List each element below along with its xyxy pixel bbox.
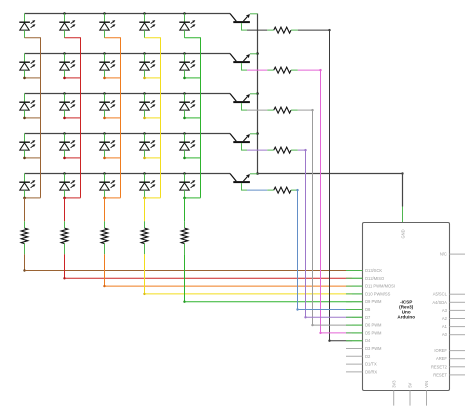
svg-text:A5/SCL: A5/SCL: [433, 292, 448, 297]
wire row 4 net: [25, 133, 231, 135]
svg-text:3V3: 3V3: [391, 380, 396, 388]
resistor R3 column 3 220: [101, 228, 108, 244]
pin IOREF: [434, 348, 465, 353]
resistor R10 Q5 base: [274, 187, 291, 193]
pin 5V: [408, 383, 413, 406]
svg-text:Arduino: Arduino: [397, 315, 415, 320]
svg-text:D12/MISO: D12/MISO: [365, 276, 384, 281]
LED18 row 4 col 3: [99, 134, 115, 158]
IC U1 Arduino Uno (Rev3) ICSP body: [363, 223, 450, 391]
svg-text:D4: D4: [365, 338, 371, 343]
wire Q3 base: [241, 109, 274, 111]
LED10 row 2 col 5: [179, 54, 195, 78]
wire column 4 to Arduino pin D10: [143, 244, 362, 295]
resistor R8 Q3 base: [274, 107, 291, 113]
svg-text:D5 PWM: D5 PWM: [365, 330, 382, 335]
pin VIN: [424, 381, 429, 406]
LED21 row 5 col 1: [19, 174, 35, 198]
LED20 row 4 col 5: [179, 134, 195, 158]
wire emitter bus: [257, 14, 259, 174]
LED19 row 4 col 4: [139, 134, 155, 158]
pin D8: [346, 307, 371, 312]
wire row 5 to Arduino pin: [291, 189, 363, 311]
node row 2 taps: [63, 52, 186, 55]
node row 5 taps: [63, 172, 186, 175]
svg-text:VIN: VIN: [424, 381, 429, 388]
node column 5 junctions: [183, 77, 186, 200]
resistor R6 Q1 base: [274, 27, 291, 33]
pin 3V3: [391, 380, 396, 406]
svg-text:AREF: AREF: [436, 356, 447, 361]
node column 4 junctions: [143, 77, 146, 200]
wire Q5 base: [241, 189, 274, 191]
LED9 row 2 col 4: [139, 54, 155, 78]
wire column 1 to resistor: [24, 198, 26, 228]
wire row 1 to Arduino pin: [291, 29, 363, 342]
pin D2: [346, 354, 371, 359]
LED1 row 1 col 1: [19, 14, 35, 38]
svg-text:A0: A0: [442, 332, 448, 337]
wire row 4 to Arduino pin: [291, 149, 363, 319]
pin D12/MISO: [346, 276, 384, 281]
LED24 row 5 col 4: [139, 174, 155, 198]
resistor R1 column 1 220: [21, 228, 28, 244]
pin D7: [346, 315, 371, 320]
svg-text:5V: 5V: [408, 383, 413, 388]
wire column 5 to resistor: [184, 198, 186, 228]
LED17 row 4 col 2: [59, 134, 75, 158]
resistor R4 column 4 220: [141, 228, 148, 244]
wire column 3 to resistor: [104, 198, 106, 228]
wire column 2 to Arduino pin D12: [63, 244, 362, 280]
resistor R7 Q2 base: [274, 67, 291, 73]
pin D10 PWM/SS: [346, 291, 391, 296]
LED11 row 3 col 1: [19, 94, 35, 118]
wire row 1 net: [25, 13, 231, 15]
LED6 row 2 col 1: [19, 54, 35, 78]
svg-text:D1/TX: D1/TX: [365, 362, 377, 367]
wire column 4 cathode bus: [145, 38, 161, 198]
resistor R9 Q4 base: [274, 147, 291, 153]
wire column 4 to resistor: [144, 198, 146, 228]
pin D11 PWM/MOSI: [346, 284, 395, 289]
svg-text:D10 PWM/SS: D10 PWM/SS: [365, 291, 391, 296]
pin D13/SCK: [346, 268, 382, 273]
pin AREF: [436, 356, 465, 361]
svg-text:A2: A2: [442, 316, 448, 321]
svg-text:D7: D7: [365, 315, 371, 320]
resistor R5 column 5 220: [181, 228, 188, 244]
LED22 row 5 col 2: [59, 174, 75, 198]
svg-text:A1: A1: [442, 324, 448, 329]
label U1 title: [397, 299, 415, 319]
pin D5 PWM: [346, 330, 382, 335]
transistor Q4: [230, 134, 258, 151]
wire Q4 base: [241, 149, 274, 151]
node row 4 taps: [63, 132, 186, 135]
LED16 row 4 col 1: [19, 134, 35, 158]
node column 3 junctions: [103, 77, 106, 200]
pin D3 PWM: [346, 346, 382, 351]
node column 1 junctions: [23, 77, 26, 200]
LED8 row 2 col 3: [99, 54, 115, 78]
pin A2: [442, 316, 465, 321]
wire column 2 cathode bus: [65, 38, 81, 198]
svg-text:D9 PWM: D9 PWM: [365, 299, 382, 304]
LED15 row 3 col 5: [179, 94, 195, 118]
wire row 3 to Arduino pin: [291, 109, 363, 326]
LED2 row 1 col 2: [59, 14, 75, 38]
resistor R2 column 2 220: [61, 228, 68, 244]
svg-text:N/C: N/C: [440, 252, 447, 257]
wire column 3 to Arduino pin D11: [103, 244, 362, 288]
LED4 row 1 col 4: [139, 14, 155, 38]
wire column 2 to resistor: [64, 198, 66, 228]
wire row 3 net: [25, 93, 231, 95]
wire column 1 to Arduino pin D13: [23, 244, 362, 272]
transistor Q1: [230, 14, 258, 31]
node column 2 junctions: [63, 77, 66, 200]
pin D1/TX: [346, 362, 377, 367]
pin RESET: [433, 372, 465, 377]
pin N/C: [440, 252, 465, 257]
pin D0/RX: [346, 369, 377, 374]
pin D4: [346, 338, 371, 343]
transistor Q3: [230, 94, 258, 111]
LED23 row 5 col 3: [99, 174, 115, 198]
LED14 row 3 col 4: [139, 94, 155, 118]
LED3 row 1 col 3: [99, 14, 115, 38]
svg-text:D2: D2: [365, 354, 371, 359]
svg-text:D11 PWM/MOSI: D11 PWM/MOSI: [365, 284, 395, 289]
svg-text:D0/RX: D0/RX: [365, 369, 377, 374]
pin D9 PWM: [346, 299, 382, 304]
svg-text:D8: D8: [365, 307, 371, 312]
svg-text:IOREF: IOREF: [434, 348, 447, 353]
pin RESET2: [431, 364, 465, 369]
svg-text:RESET: RESET: [433, 372, 447, 377]
LED13 row 3 col 3: [99, 94, 115, 118]
node emitter bus junctions: [256, 52, 259, 175]
pin A5/SCL: [433, 292, 465, 297]
LED5 row 1 col 5: [179, 14, 195, 38]
svg-text:A3: A3: [442, 308, 448, 313]
svg-text:RESET2: RESET2: [431, 364, 448, 369]
wire row 2 net: [25, 53, 231, 55]
wire Q2 base: [241, 69, 274, 71]
wire column 3 cathode bus: [105, 38, 121, 198]
pin A4/SDA: [432, 300, 465, 305]
transistor Q2: [230, 54, 258, 71]
pin D6 PWM: [346, 323, 382, 328]
wire column 5 to Arduino pin D9: [183, 244, 362, 303]
LED12 row 3 col 2: [59, 94, 75, 118]
svg-text:D6 PWM: D6 PWM: [365, 323, 382, 328]
LED7 row 2 col 2: [59, 54, 75, 78]
transistor Q5: [230, 174, 258, 191]
pin A3: [442, 308, 465, 313]
wire column 1 cathode bus: [25, 38, 41, 198]
wire bus to GND pin: [258, 172, 404, 222]
node row 3 taps: [63, 92, 186, 95]
wire row 2 to Arduino pin: [291, 69, 363, 334]
wire column 5 cathode bus: [185, 38, 201, 198]
LED25 row 5 col 5: [179, 174, 195, 198]
svg-text:D3 PWM: D3 PWM: [365, 346, 382, 351]
node row 1 taps: [63, 12, 186, 15]
svg-text:D13/SCK: D13/SCK: [365, 268, 382, 273]
pin A0: [442, 332, 465, 337]
wire row 5 net: [25, 173, 231, 175]
wire Q1 base: [241, 29, 274, 31]
svg-text:A4/SDA: A4/SDA: [432, 300, 447, 305]
pin A1: [442, 324, 465, 329]
svg-text:GND: GND: [400, 229, 405, 238]
